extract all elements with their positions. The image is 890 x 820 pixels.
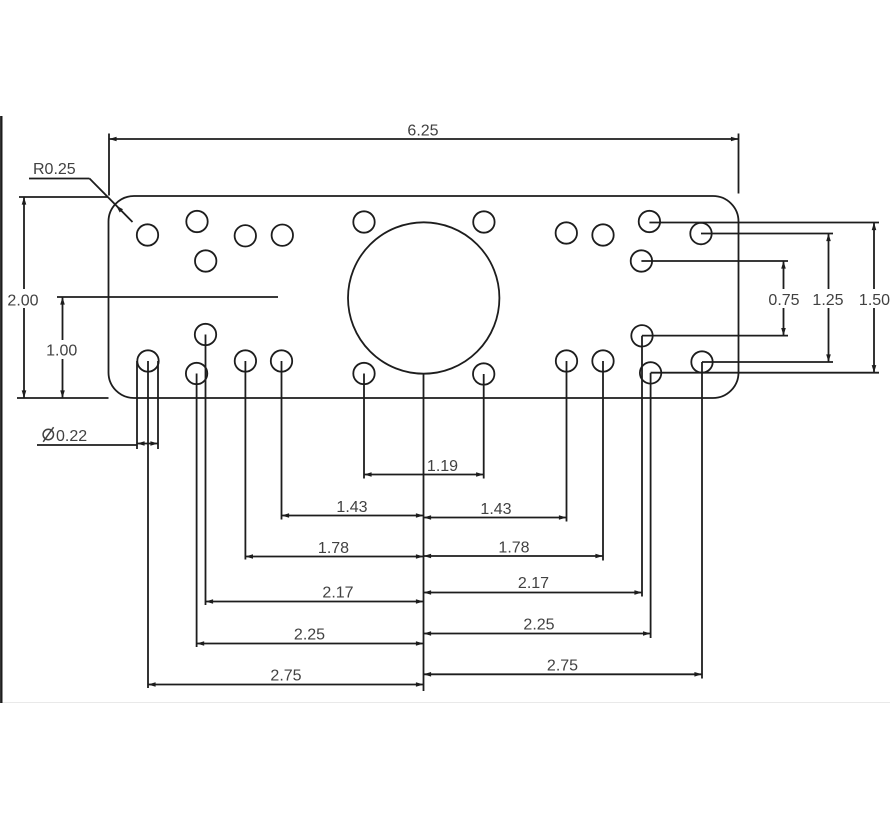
extension line 2.00 bottom [17,397,109,399]
hole bottom-right lowered [640,362,661,383]
plate outline rounded rectangle [109,196,739,398]
hole top-left 5 [272,225,293,246]
leader line R0.25 [90,179,133,223]
leader line hole to 1.50 top [649,222,879,224]
extension line hole x196 [196,374,198,648]
dimension line 1.43 right [424,515,567,520]
hole top-mid right [473,211,494,232]
svg-text:R0.25: R0.25 [33,161,76,178]
label 6.25 [407,123,438,140]
hole top-left 1 [137,224,158,245]
dimension line 1.19 [364,472,484,477]
hole top-left 2 raised [186,211,207,232]
label 1.78 left [318,540,349,557]
label 2.00 [4,289,43,310]
leader underline 0.22 [37,444,137,446]
dimension arrows 0.22 [137,441,158,446]
hole top-right 2 [592,224,613,245]
dimension line 1.78 left [245,554,423,559]
dimension line 2.17 left [206,599,424,604]
extension line hole x364 [363,374,365,479]
extension line hole x483 [483,374,485,479]
label 2.17 left [322,585,353,602]
extension line centre x423 [423,374,425,691]
extension line hole x281 [281,361,283,520]
label 1.43 right [480,501,511,518]
svg-text:2.25: 2.25 [294,627,325,644]
dimension line 2.00 [22,197,27,398]
scan edge line left [0,116,2,703]
hole bottom-left 5 [271,350,292,371]
dimension line 0.75 [781,261,786,336]
svg-text:2.17: 2.17 [322,585,353,602]
hole top-left 3 lowered [195,250,216,271]
dimension line 2.75 right [424,672,703,677]
leader line hole to 1.50 bottom [651,372,879,374]
extension line hole x245 [244,361,246,560]
hole top-right raised [639,211,660,232]
extension line hole x642 [641,336,643,597]
svg-text:6.25: 6.25 [407,123,438,140]
hole top-mid left [353,211,374,232]
extension line hole tangent right [157,361,159,449]
svg-text:2.75: 2.75 [547,658,578,675]
svg-text:0.22: 0.22 [56,428,87,445]
leader line hole to 1.25 top [701,233,833,235]
label 1.25 [811,289,846,309]
extension line hole x566 [566,361,568,522]
label 1.00 [44,340,80,360]
svg-text:2.17: 2.17 [518,575,549,592]
extension line hole x702 [701,362,703,679]
svg-text:1.43: 1.43 [480,501,511,518]
large centre hole circle [348,222,499,373]
extension line 6.25 left [108,134,110,196]
label 1.78 right [498,540,529,557]
dimension line 1.43 left [282,513,424,518]
hole bottom-right 2 [592,350,613,371]
hole bottom-left lowered [186,363,207,384]
extension line 6.25 right [738,134,740,194]
extension line hole x205 [205,335,207,606]
extension line hole x148 [147,361,149,688]
dimension line 1.25 [826,234,831,363]
label 2.17 right [518,575,549,592]
hole bottom-mid right [473,363,494,384]
hole bottom-right 1 [556,350,577,371]
svg-text:1.25: 1.25 [812,292,843,309]
label 0.75 [766,289,802,309]
dimension line 2.25 left [197,641,424,646]
hole top-right 5 [690,223,711,244]
svg-text:1.00: 1.00 [46,343,77,360]
svg-text:1.50: 1.50 [859,292,890,309]
hole bottom-left raised [195,324,216,345]
dimension line 1.00 [60,297,65,398]
extension line hole x650 [650,373,652,638]
svg-text:1.43: 1.43 [336,499,367,516]
svg-text:1.78: 1.78 [318,540,349,557]
extension line hole tangent left [136,361,138,449]
hole top-left 4 [235,225,256,246]
svg-text:1.78: 1.78 [498,540,529,557]
dimension line 2.75 left [148,682,424,687]
svg-text:0.75: 0.75 [768,292,799,309]
leader line hole to 1.25 bottom [702,361,833,363]
scan boundary faint bottom [0,702,890,704]
hole bottom-mid left [353,363,374,384]
dimension line 1.50 [872,223,877,373]
label 2.25 left [294,627,325,644]
label 1.50 [857,289,890,309]
hole bottom-left 4 [235,350,256,371]
extension line 1.00 mid-height [57,296,278,298]
leader line hole to 0.75 bottom [642,335,788,337]
extension line 2.00 top [19,196,108,198]
label 2.75 right [547,658,578,675]
dimension line 1.78 right [424,554,604,559]
svg-text:2.00: 2.00 [7,293,38,310]
dimension line 2.25 right [424,631,651,636]
dimension line 6.25 [109,137,739,142]
svg-text:2.75: 2.75 [270,668,301,685]
leader line hole to 0.75 top [641,260,788,262]
label 1.43 left [336,499,367,516]
svg-text:1.19: 1.19 [427,458,458,475]
hole bottom-right raised [631,325,652,346]
dimension line 2.17 right [424,590,643,595]
label 1.19 [427,458,458,475]
label 2.75 left [270,668,301,685]
leader underline R0.25 [29,178,90,180]
extension line hole x603 [602,361,604,561]
hole bottom-right 5 [691,351,712,372]
label diameter 0.22 symbol [43,427,87,445]
label 2.25 right [523,617,554,634]
hole top-right lowered [631,250,652,271]
label R0.25 [33,161,76,178]
hole bottom-left 1 [137,350,158,371]
svg-text:2.25: 2.25 [523,617,554,634]
hole top-right 1 [556,222,577,243]
